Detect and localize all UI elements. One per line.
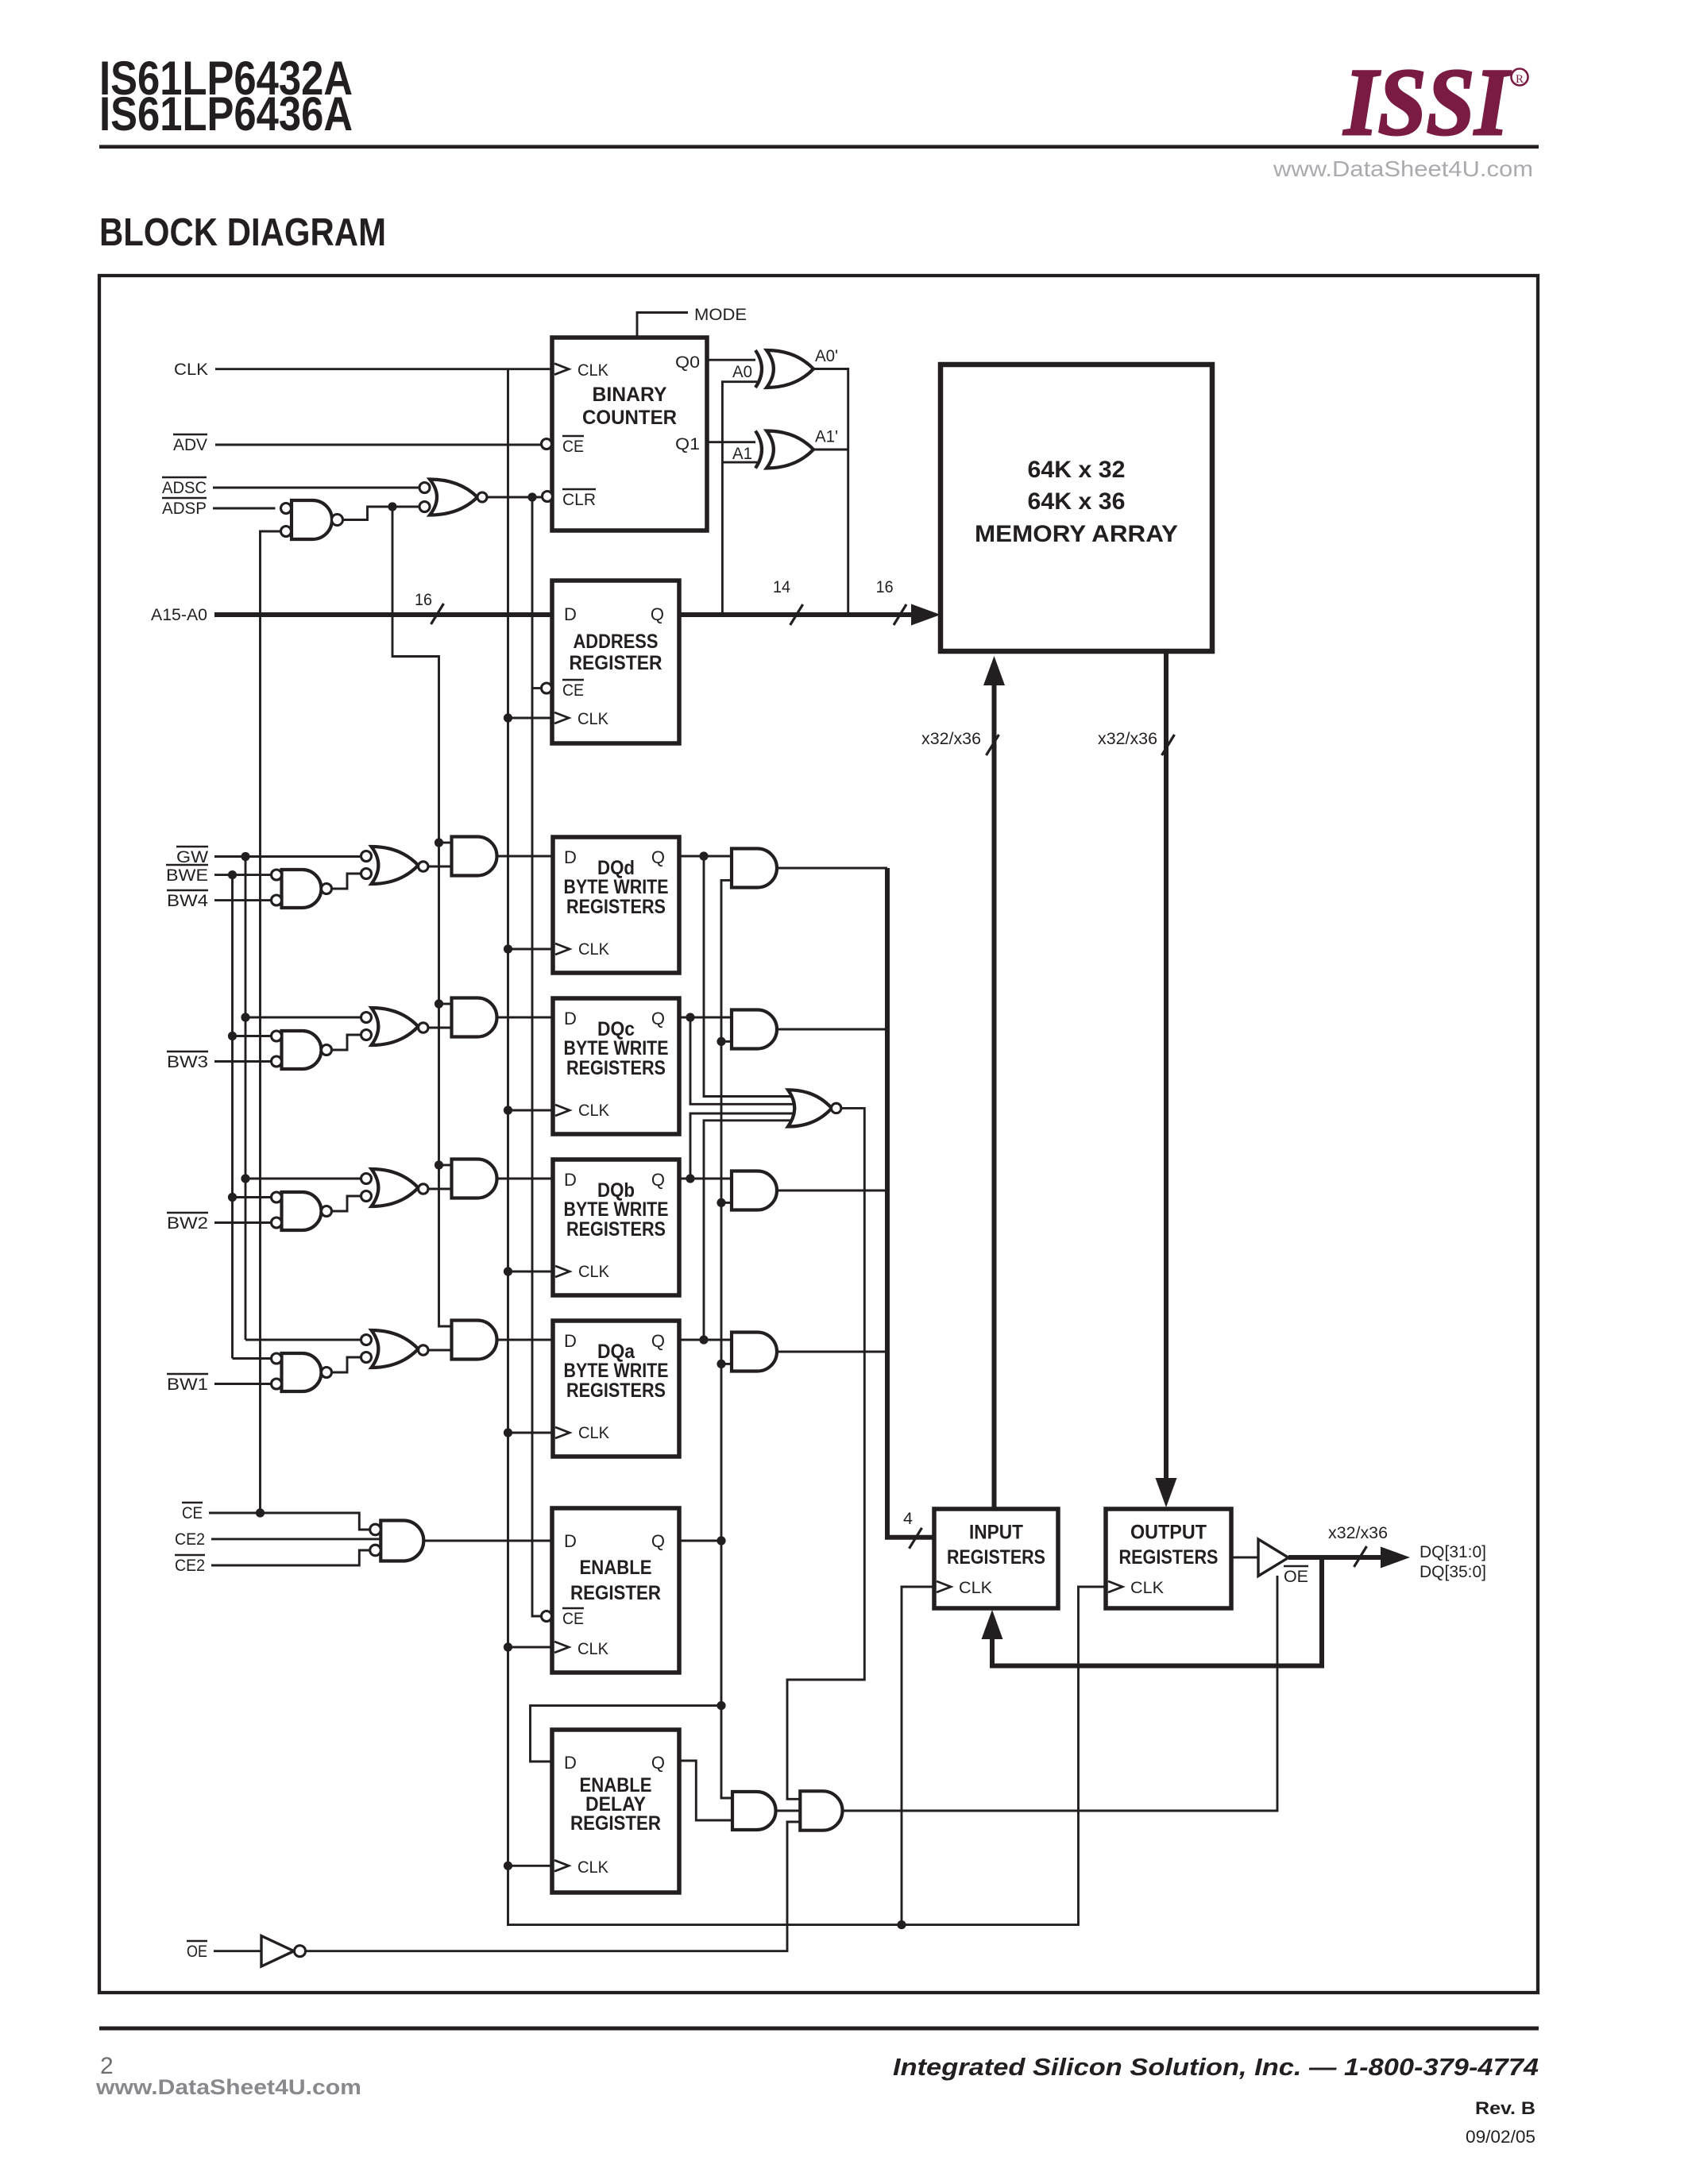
wire DQ output bus (1288, 1555, 1384, 1560)
wire A0 feedback from address bus (722, 382, 757, 613)
wire DQc Q tap to nor U14 (686, 1013, 694, 1021)
junction U2 output to CE rail (527, 492, 536, 501)
pin U3 CE (542, 439, 552, 450)
wire A1 feedback branch (722, 461, 757, 464)
wire nand-DQd output jog to nor (332, 874, 361, 889)
and gate output-enable row DQc (732, 1010, 777, 1049)
svg-text:Q: Q (651, 1009, 665, 1028)
nand gate row DQa (282, 1353, 322, 1391)
junction BWE rail (228, 870, 237, 879)
and gate write-enable row DQb (452, 1160, 497, 1198)
nor gate row DQd (372, 847, 419, 884)
svg-text:COUNTER: COUNTER (582, 407, 677, 429)
wire load rail stub row DQd (439, 842, 452, 844)
svg-text:ENABLE: ENABLE (580, 1557, 652, 1579)
wire address bus register to memory (679, 612, 912, 617)
svg-text:A1': A1' (815, 427, 838, 446)
wire enable rail to and gates (721, 880, 732, 1798)
svg-text:R: R (1516, 73, 1524, 86)
wire A0' output (813, 369, 848, 614)
wire nand-DQa output jog to nor (332, 1357, 361, 1372)
svg-text:A15-A0: A15-A0 (151, 605, 207, 624)
wire U1 second input from CE rail (261, 531, 281, 1513)
svg-text:REGISTERS: REGISTERS (1119, 1546, 1219, 1569)
wire nor-DQc output to and gate (428, 1027, 452, 1029)
footer rule (99, 2027, 1539, 2031)
xor U4 address bit 0 (767, 350, 813, 388)
svg-text:BYTE WRITE: BYTE WRITE (564, 1037, 669, 1059)
byte write register DQb (553, 1160, 679, 1295)
wire CLK branch to input registers (902, 1587, 934, 1925)
svg-text:CLK: CLK (174, 360, 209, 379)
svg-text:Q: Q (651, 847, 665, 867)
svg-text:ADDRESS: ADDRESS (574, 631, 659, 653)
svg-text:REGISTER: REGISTER (570, 1582, 661, 1604)
svg-text:REGISTERS: REGISTERS (566, 1218, 666, 1241)
junction GW rail (241, 852, 249, 861)
wire GW branch row DQb (245, 1178, 361, 1180)
svg-text:MODE: MODE (694, 305, 747, 324)
svg-text:Q: Q (651, 604, 664, 624)
svg-text:Rev. B: Rev. B (1475, 2098, 1535, 2118)
wire BWE branch row DQb (233, 1196, 272, 1198)
svg-text:BYTE WRITE: BYTE WRITE (564, 1198, 669, 1221)
svg-text:www.DataSheet4U.com: www.DataSheet4U.com (95, 2075, 361, 2099)
svg-text:BYTE WRITE: BYTE WRITE (564, 876, 669, 898)
nand gate row DQb (282, 1192, 322, 1230)
wire D input DQd (497, 855, 554, 858)
wire byte write-enable bus (887, 868, 934, 1538)
svg-text:CE: CE (562, 437, 584, 456)
svg-text:GW: GW (176, 847, 209, 866)
svg-text:REGISTERS: REGISTERS (566, 1057, 666, 1079)
svg-text:REGISTERS: REGISTERS (566, 896, 666, 918)
pin U17 CLK (1108, 1581, 1122, 1592)
svg-text:A1: A1 (732, 444, 752, 463)
wire A1' output (813, 449, 848, 451)
pin U9 CE (542, 1611, 552, 1622)
wire BWE branch row DQc (233, 1035, 272, 1037)
svg-text:A0: A0 (732, 362, 752, 381)
junction CE rail from U1 (256, 1508, 265, 1517)
svg-text:64K x 36: 64K x 36 (1028, 488, 1126, 515)
svg-text:CLR: CLR (562, 490, 596, 509)
nand gate row DQc (282, 1031, 322, 1069)
inverter U19 OE (261, 1936, 294, 1967)
binary counter U3 (552, 338, 707, 531)
wire U10 Q to and U11 (679, 1761, 732, 1820)
and U11 enable pulse (732, 1792, 776, 1830)
svg-text:Q: Q (651, 1331, 665, 1351)
wire Q output DQd (679, 855, 732, 858)
svg-text:www.DataSheet4U.com: www.DataSheet4U.com (1273, 156, 1533, 181)
svg-text:BW4: BW4 (167, 891, 208, 910)
wire nor-DQd output to and gate (428, 866, 452, 868)
wire U6 clock tap (504, 713, 512, 722)
svg-text:BYTE WRITE: BYTE WRITE (564, 1360, 669, 1382)
nor gate row DQc (372, 1008, 419, 1045)
wire Q0 to xor U4 (707, 359, 755, 361)
and gate output-enable row DQa (732, 1333, 777, 1372)
wire MODE input (637, 313, 688, 338)
nand U1 ADSP/chip-enable (292, 500, 332, 539)
wire Q output DQa (679, 1339, 732, 1341)
svg-text:ISSI: ISSI (1342, 49, 1511, 156)
wire Q1 to xor U5 (707, 441, 755, 443)
svg-text:16: 16 (876, 577, 894, 596)
svg-text:D: D (564, 1009, 577, 1028)
svg-text:D: D (564, 1170, 577, 1190)
svg-text:CLK: CLK (578, 1101, 610, 1120)
svg-text:CLK: CLK (1130, 1578, 1165, 1597)
input registers U16 (934, 1509, 1058, 1608)
and gate output-enable row DQb (732, 1171, 777, 1210)
ISSI registered mark (1512, 69, 1528, 86)
wire clock tap DQb (504, 1267, 512, 1275)
svg-text:BW2: BW2 (167, 1214, 208, 1233)
and gate output-enable row DQd (732, 849, 777, 888)
wire GW rail down (245, 857, 247, 1341)
svg-text:INPUT: INPUT (969, 1522, 1023, 1544)
svg-text:BLOCK DIAGRAM: BLOCK DIAGRAM (99, 211, 386, 254)
svg-text:4: 4 (903, 1509, 913, 1528)
svg-text:CLK: CLK (577, 1858, 609, 1877)
enable register U9 (552, 1508, 679, 1673)
tri-state output buffer U18 (1258, 1539, 1288, 1576)
wire write-back feedback bus (992, 1557, 1322, 1666)
svg-text:x32/x36: x32/x36 (921, 729, 981, 748)
wire load rail stub row DQc (439, 1003, 452, 1005)
svg-text:D: D (564, 604, 577, 624)
svg-text:Q: Q (651, 1753, 665, 1773)
wire U14 output to and U12 (787, 1108, 864, 1799)
svg-text:x32/x36: x32/x36 (1098, 729, 1157, 748)
and gate write-enable row DQc (452, 998, 497, 1037)
output registers U17 (1106, 1509, 1231, 1608)
wire DQb Q tap to nor U14 (686, 1174, 694, 1183)
svg-text:16: 16 (415, 590, 432, 609)
wire CLK distribution bus (508, 369, 1107, 1925)
svg-text:CLK: CLK (577, 361, 609, 380)
svg-text:OE: OE (187, 1942, 207, 1961)
svg-text:CE: CE (562, 1609, 584, 1628)
svg-text:CLK: CLK (578, 940, 610, 959)
svg-text:x32/x36: x32/x36 (1328, 1523, 1388, 1542)
svg-text:64K x 32: 64K x 32 (1028, 457, 1126, 483)
byte write register DQc (553, 998, 679, 1134)
wire U15 output to enable register D (424, 1540, 553, 1542)
svg-text:DQ[35:0]: DQ[35:0] (1420, 1562, 1486, 1581)
xor U5 address bit 1 (767, 431, 813, 469)
svg-text:ADSC: ADSC (162, 478, 207, 497)
svg-text:OUTPUT: OUTPUT (1130, 1522, 1207, 1544)
svg-text:CLK: CLK (577, 1639, 609, 1658)
wire memory array to output registers (1164, 651, 1168, 1498)
wire and-DQb output to write bus (777, 1190, 887, 1192)
diagram outer frame (99, 276, 1538, 1993)
pin U10 CLK (554, 1860, 569, 1871)
wire DQd Q tap to nor U14 (699, 851, 708, 860)
and gate write-enable row DQa (452, 1321, 497, 1360)
memory array U7 (941, 365, 1212, 651)
wire Q output DQc (679, 1017, 732, 1019)
wire U11 output to and U12 (776, 1810, 801, 1812)
and gate write-enable row DQd (452, 837, 497, 876)
wire and-DQc output to write bus (777, 1028, 887, 1031)
wire byte-enable stub row DQa (721, 1363, 732, 1365)
wire and-DQa output to write bus (777, 1351, 887, 1353)
nand U15 chip-enable combine (380, 1521, 423, 1561)
byte write register DQa (553, 1321, 679, 1457)
wire GW branch row DQa (245, 1339, 361, 1341)
svg-text:CLK: CLK (577, 709, 609, 728)
svg-text:REGISTERS: REGISTERS (566, 1379, 666, 1402)
wire OE to and U12 (306, 1822, 801, 1951)
wire load rail stub row DQb (439, 1164, 452, 1167)
nand gate row DQd (282, 870, 322, 908)
nor U2 ADSC/ADSP (430, 480, 477, 515)
svg-text:D: D (564, 1753, 577, 1773)
svg-text:BW3: BW3 (167, 1052, 208, 1071)
wire nor-DQb output to and gate (428, 1188, 452, 1190)
svg-text:IS61LP6436A: IS61LP6436A (99, 87, 353, 141)
byte write register DQd (553, 837, 679, 973)
svg-text:Q1: Q1 (675, 434, 700, 453)
svg-text:REGISTERS: REGISTERS (947, 1546, 1045, 1569)
pin U6 CE (542, 683, 552, 693)
svg-text:DQ[31:0]: DQ[31:0] (1420, 1542, 1486, 1561)
nor gate row DQa (372, 1330, 419, 1368)
wire address-enable branch to address register CE (532, 687, 541, 689)
svg-text:BWE: BWE (166, 866, 208, 885)
wire nor-DQa output to and gate (428, 1349, 452, 1352)
svg-text:OE: OE (1284, 1567, 1308, 1586)
svg-text:A0': A0' (815, 346, 838, 365)
svg-text:CE: CE (562, 681, 584, 700)
junction CLK input-registers branch (897, 1920, 906, 1929)
svg-text:Integrated Silicon Solution, I: Integrated Silicon Solution, Inc. — 1-80… (893, 2053, 1539, 2081)
svg-text:14: 14 (773, 577, 790, 596)
wire U1 output to nor U2 (343, 507, 420, 520)
wire nand-DQc output jog to nor (332, 1035, 361, 1050)
wire clock tap DQd (504, 944, 512, 953)
wire enable rail to delay register D (531, 1706, 722, 1761)
wire register-load rail down to byte write AND gates (392, 507, 452, 1326)
wire U2 output to counter CLR (487, 496, 543, 499)
svg-text:CLK: CLK (578, 1423, 610, 1442)
junction enable rail to delay register (717, 1701, 725, 1710)
svg-text:Q: Q (651, 1531, 665, 1551)
svg-text:09/02/05: 09/02/05 (1466, 2127, 1535, 2147)
wire output registers to buffer (1231, 1557, 1260, 1559)
wire Q output DQb (679, 1178, 732, 1180)
wire GW branch row DQc (245, 1017, 361, 1019)
wire D input DQb (497, 1178, 554, 1180)
svg-text:ADV: ADV (173, 435, 208, 454)
wire clock tap DQc (504, 1106, 512, 1114)
svg-text:CE2: CE2 (175, 1530, 205, 1549)
wire BWE branch row DQa (233, 1357, 272, 1360)
wire and-DQd output to write bus (777, 867, 887, 870)
wire U12 output to tri-state enable (843, 1576, 1277, 1811)
svg-text:MEMORY ARRAY: MEMORY ARRAY (975, 521, 1178, 547)
svg-text:CE: CE (182, 1503, 203, 1522)
svg-text:REGISTER: REGISTER (570, 1812, 661, 1835)
pin U6 CLK (554, 712, 569, 723)
svg-text:BW1: BW1 (167, 1375, 208, 1394)
wire BWE rail down (231, 875, 234, 1359)
pin U3 CLR (543, 492, 553, 502)
wire byte-enable stub row DQc (721, 1040, 732, 1043)
pin U16 CLK (937, 1581, 951, 1592)
svg-text:CLK: CLK (578, 1262, 610, 1281)
wire input registers to memory array (992, 666, 997, 1509)
wire D input DQa (497, 1339, 554, 1341)
enable delay register U10 (552, 1730, 679, 1893)
wire address-enable rail (532, 497, 542, 1616)
svg-text:REGISTER: REGISTER (570, 652, 662, 674)
address register U6 (552, 581, 679, 743)
svg-text:BINARY: BINARY (593, 384, 667, 406)
wire enable register Q rail (679, 1540, 721, 1542)
svg-text:Q: Q (651, 1170, 665, 1190)
junction U1 output branch (388, 502, 396, 511)
wire nand-DQb output jog to nor (332, 1196, 361, 1211)
nor gate row DQb (372, 1169, 419, 1206)
wire clock tap DQa (504, 1428, 512, 1437)
svg-text:Q0: Q0 (675, 353, 700, 372)
nor U14 byte-write detect (788, 1090, 832, 1126)
svg-text:D: D (564, 847, 577, 867)
wire DQa Q tap to nor U14 (699, 1335, 708, 1344)
wire D input DQc (497, 1017, 554, 1019)
svg-text:CLK: CLK (959, 1578, 993, 1597)
pin U9 CLK (554, 1642, 569, 1653)
svg-text:D: D (564, 1531, 577, 1551)
svg-text:CE2: CE2 (175, 1556, 205, 1575)
header rule (99, 145, 1539, 149)
wire byte-enable stub row DQb (721, 1202, 732, 1204)
svg-text:ADSP: ADSP (162, 499, 207, 518)
and U12 output enable combine (800, 1791, 842, 1830)
svg-text:D: D (564, 1331, 577, 1351)
